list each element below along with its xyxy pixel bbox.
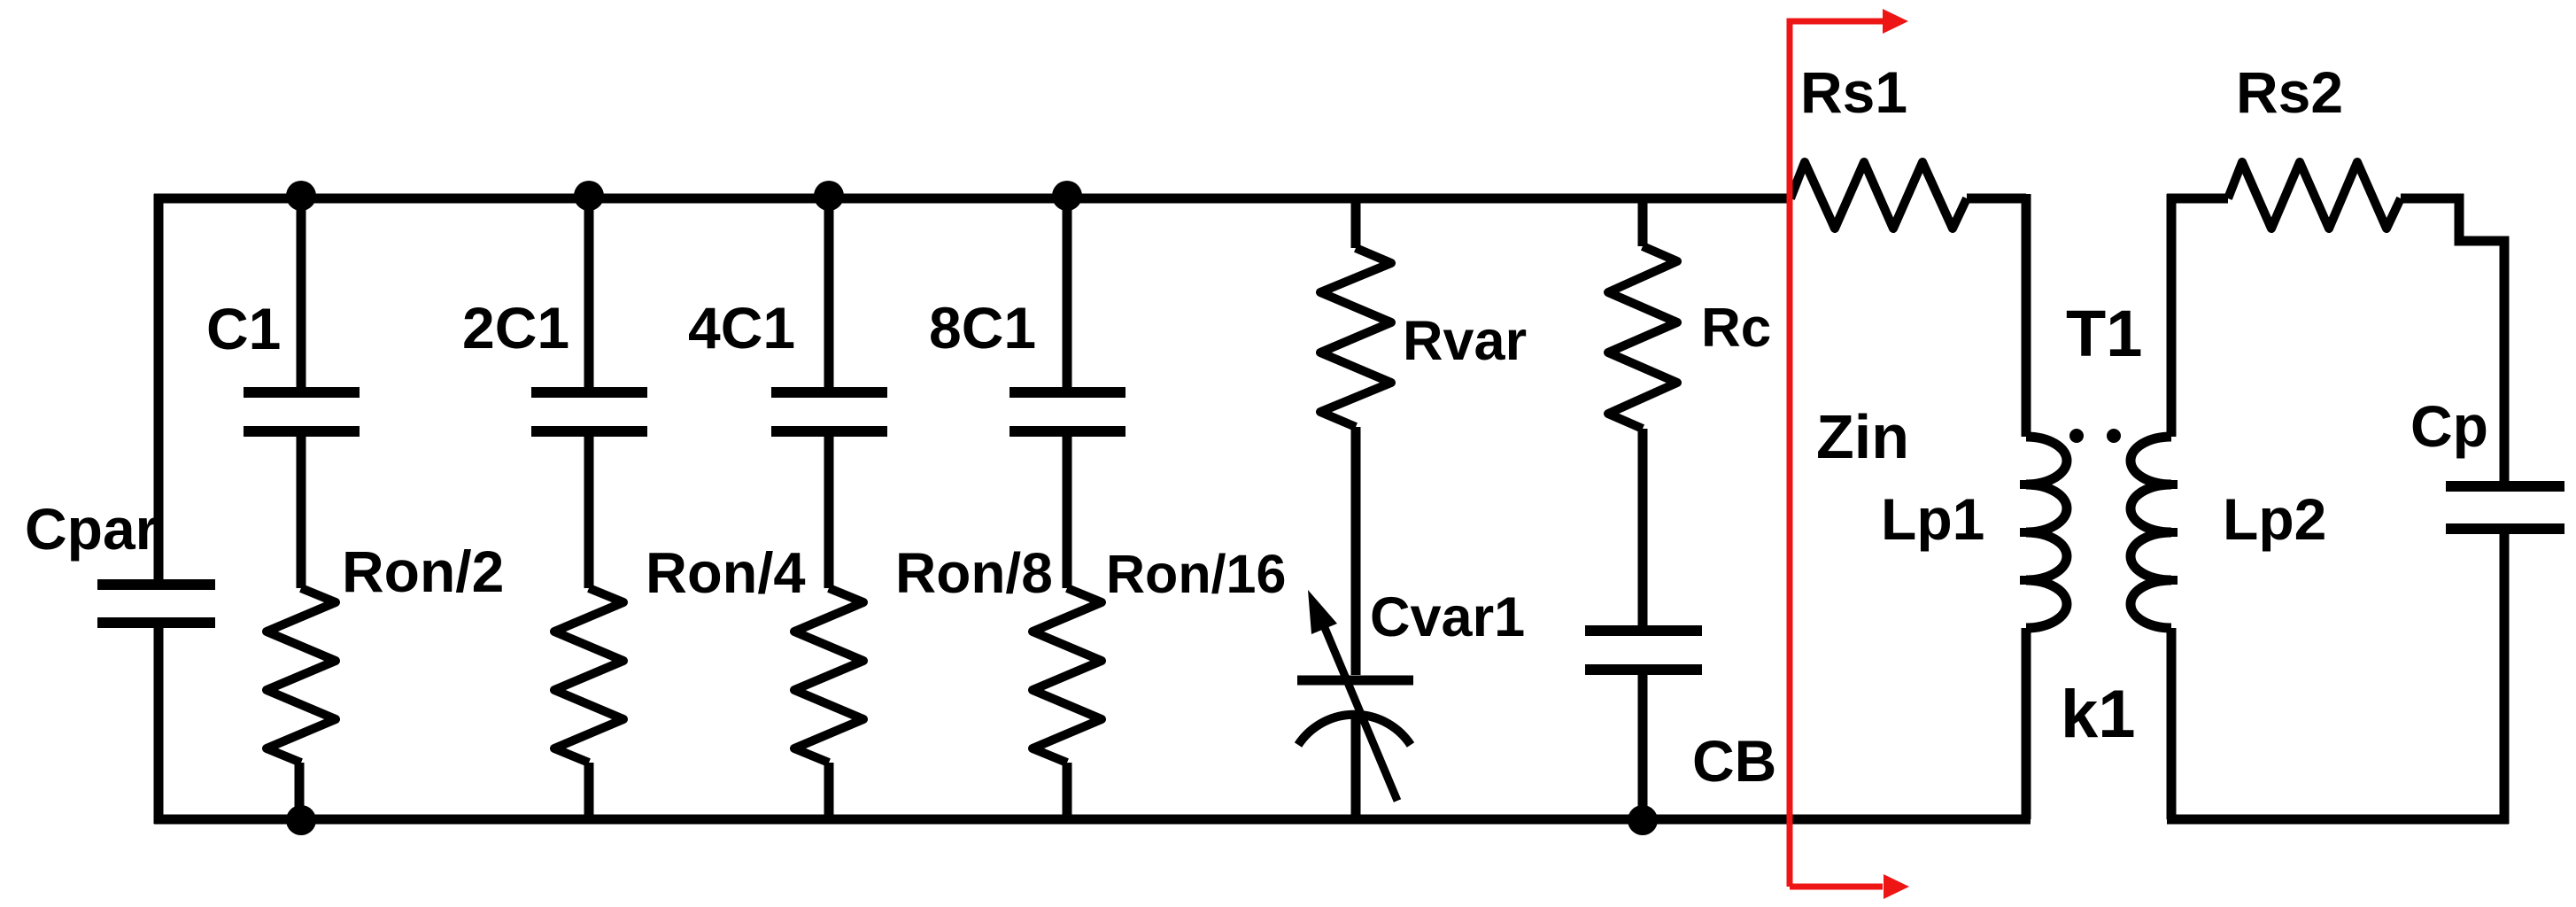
svg-text:Rs2: Rs2	[2236, 59, 2343, 125]
wire 2C1 branch upper	[584, 198, 594, 387]
capacitor Cpar	[97, 585, 215, 623]
svg-text:2C1: 2C1	[462, 295, 569, 360]
wire 4C1 branch upper	[824, 198, 834, 387]
svg-text:k1: k1	[2061, 677, 2136, 752]
wire Rc branch upper	[1638, 198, 1648, 246]
capacitor CB	[1585, 631, 1702, 670]
svg-text:Rvar: Rvar	[1403, 310, 1527, 372]
wire top rail	[154, 194, 1791, 204]
wire C1 to Ron/2	[297, 437, 306, 588]
Zin red arrow bottom	[1884, 874, 1909, 899]
wire CB to bottom	[1638, 675, 1648, 819]
wire bottom rail primary	[154, 815, 2031, 825]
svg-text:Cp: Cp	[2410, 393, 2488, 459]
wire 8C1 to Ron/16	[1063, 437, 1072, 588]
capacitor 2C1	[531, 392, 647, 431]
resistor Ron/4	[554, 588, 623, 763]
wire 2C1 to Ron/4	[584, 437, 594, 588]
svg-text:Ron/8: Ron/8	[895, 541, 1053, 605]
node dot top 2C1	[574, 181, 604, 211]
capacitor Cvar1 top plate	[1297, 676, 1413, 686]
wire C1 branch upper	[297, 198, 306, 387]
svg-text:T1: T1	[2066, 297, 2142, 370]
node dot top 8C1	[1052, 181, 1082, 211]
resistor Ron/8	[794, 588, 863, 763]
wire Lp2 top to Rs2	[2167, 194, 2228, 204]
resistor R Ron/2	[267, 588, 336, 763]
capacitor 8C1	[1010, 392, 1126, 431]
svg-text:Rs1: Rs1	[1800, 59, 1907, 125]
resistor Ron/16	[1033, 588, 1102, 763]
wire Rs1 to Lp1 corner	[1967, 194, 2026, 204]
wire Cp to bottom	[2500, 534, 2510, 824]
wire Cvar1 to bottom	[1351, 716, 1361, 819]
capacitor Cvar1 curved plate	[1298, 715, 1411, 745]
svg-text:Zin: Zin	[1816, 402, 1909, 471]
svg-text:Rc: Rc	[1701, 298, 1771, 359]
node dot bottom C1	[286, 805, 316, 835]
svg-text:C1: C1	[206, 296, 281, 361]
node dot top 4C1	[814, 181, 844, 211]
resistor Rs1	[1791, 162, 1967, 229]
wire Ron/8 to bottom	[824, 763, 834, 819]
wire left vertical (Cpar branch)	[154, 194, 164, 585]
inductor Lp2 nubs	[2147, 485, 2178, 580]
inductor Lp2	[2131, 437, 2171, 628]
wire left vertical lower	[154, 623, 164, 824]
capacitor C1	[244, 392, 360, 431]
svg-text:4C1: 4C1	[688, 295, 795, 360]
wire Rs2 right jog	[2401, 198, 2504, 481]
Zin measurement red line	[1790, 21, 1884, 887]
svg-text:Cvar1: Cvar1	[1370, 586, 1525, 648]
wire Rvar to Cvar1	[1351, 427, 1361, 675]
resistor Rc	[1608, 246, 1677, 429]
arrow of Cvar1 shaft	[1323, 624, 1397, 801]
wire Ron/4 to bottom	[584, 763, 594, 819]
capacitor 4C1	[771, 392, 887, 431]
arrow of Cvar1 head	[1308, 590, 1337, 634]
transformer T1 coupling dot left	[2069, 429, 2084, 443]
svg-text:Ron/16: Ron/16	[1106, 544, 1286, 604]
svg-text:Cpar: Cpar	[25, 496, 158, 562]
resistor Rvar	[1320, 248, 1391, 427]
svg-text:Ron/2: Ron/2	[342, 539, 504, 604]
svg-text:8C1: 8C1	[929, 295, 1036, 360]
svg-text:Lp1: Lp1	[1881, 486, 1984, 552]
node dot bottom CB	[1628, 805, 1658, 835]
svg-text:Ron/4: Ron/4	[646, 540, 806, 605]
capacitor Cp	[2446, 486, 2564, 529]
wire Lp1 bottom lead	[2022, 628, 2031, 819]
wire Lp2 top lead	[2167, 194, 2177, 437]
wire 4C1 to Ron/8	[824, 437, 834, 588]
wire Rvar branch upper	[1351, 198, 1361, 248]
wire 8C1 branch upper	[1063, 198, 1072, 387]
wire bottom rail secondary	[2167, 815, 2509, 825]
inductor Lp1	[2026, 437, 2067, 628]
inductor Lp1 nubs	[2020, 485, 2051, 580]
Zin red arrow top	[1883, 9, 1908, 34]
wire Ron/2 to bottom	[295, 763, 305, 819]
wire Rc to CB	[1638, 429, 1648, 625]
svg-text:Lp2: Lp2	[2223, 486, 2326, 552]
wire Lp1 top lead	[2022, 194, 2031, 437]
svg-text:CB: CB	[1692, 728, 1776, 794]
node dot top C1	[286, 181, 316, 211]
wire Lp2 bottom lead	[2167, 628, 2177, 819]
resistor Rs2	[2228, 162, 2401, 229]
wire Ron/16 to bottom	[1063, 763, 1072, 819]
transformer T1 coupling dot right	[2107, 429, 2121, 443]
